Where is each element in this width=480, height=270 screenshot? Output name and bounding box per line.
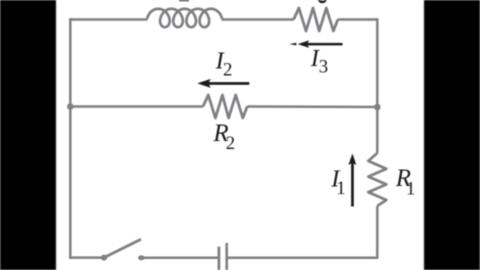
inductor L (top, 4 loops) [147,9,222,27]
wire below R1 to bottom-right corner [376,206,379,259]
switch blade (open) [104,239,141,257]
wire bottom left segment to switch pivot [69,256,104,259]
wire left vertical [69,18,72,258]
right letterbox bar [424,0,480,270]
current arrow I2 (points left) [197,79,211,88]
label L remnant (cut off at top) [179,0,189,1]
svg-text:3: 3 [319,57,328,78]
svg-text:1: 1 [336,178,345,199]
junction node right (middle wire / right wire) [374,104,381,111]
capacitor left plate [217,247,220,270]
wire middle horizontal left of R2 [70,105,203,108]
resistor R2 (middle, zigzag) [203,95,247,118]
current arrow I3 (points left) [298,40,310,48]
svg-text:2: 2 [223,59,232,80]
wire right vertical upper (corner to middle junction) [376,18,379,107]
wire from capacitor to bottom-right corner [228,256,379,259]
small dash left of I3 arrowhead [289,43,296,46]
resistor R3 (top right, zigzag) [294,8,338,31]
wire right vertical to R1 [376,107,379,153]
left letterbox bar [0,0,56,270]
wire middle horizontal right of R2 [247,105,377,108]
wire from R3 to top-right corner [338,18,379,21]
capacitor right plate [225,243,228,270]
resistor R1 (right, vertical zigzag) [368,153,386,206]
wire top-left horizontal segment [69,18,147,21]
junction node left (middle wire / left wire) [67,103,74,110]
svg-text:1: 1 [406,179,415,200]
label R3 remnant: bottom of subscript 3 (cut off at top) [318,0,327,3]
switch pivot dot [101,255,107,261]
wire from switch contact to capacitor [144,256,218,259]
switch open contact dot [138,255,145,260]
svg-text:2: 2 [226,133,235,154]
wire between inductor and R3 [222,18,294,21]
current arrow I1 (points up) [348,154,356,166]
